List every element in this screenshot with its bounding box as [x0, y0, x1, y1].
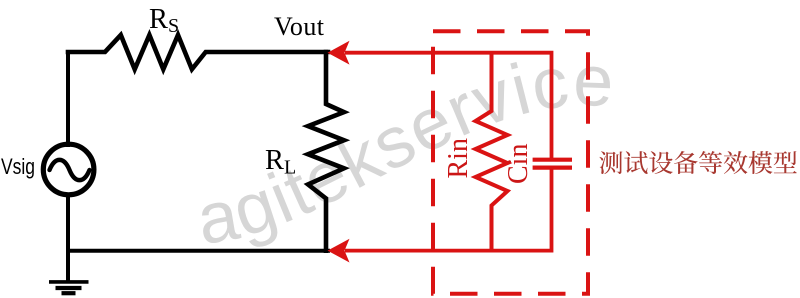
svg-text:Rin: Rin	[443, 138, 474, 178]
svg-text:RS: RS	[149, 4, 179, 37]
svg-text:Vsig: Vsig	[1, 154, 35, 179]
svg-text:Cin: Cin	[503, 144, 534, 184]
svg-text:Vout: Vout	[274, 12, 325, 41]
svg-text:RL: RL	[265, 145, 296, 179]
